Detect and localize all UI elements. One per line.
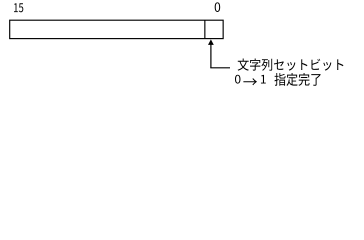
- bit 0 cell divider: [204, 20, 206, 38]
- bit label 0: [215, 2, 220, 12]
- annotation line 2: 1: [261, 75, 266, 84]
- bit label 15: [14, 3, 23, 12]
- annotation line 1: 文字列セットビット: [238, 58, 344, 70]
- annotation line 2: right-arrow: [243, 78, 257, 85]
- annotation line 2: 指定完了: [274, 73, 320, 86]
- register box (bits 15-0): [10, 20, 223, 38]
- horizontal connector wire: [210, 67, 230, 69]
- arrow stem (wire): [210, 44, 212, 67]
- annotation line 2: 0: [235, 75, 240, 84]
- arrow to bit 0 (head): [208, 39, 214, 45]
